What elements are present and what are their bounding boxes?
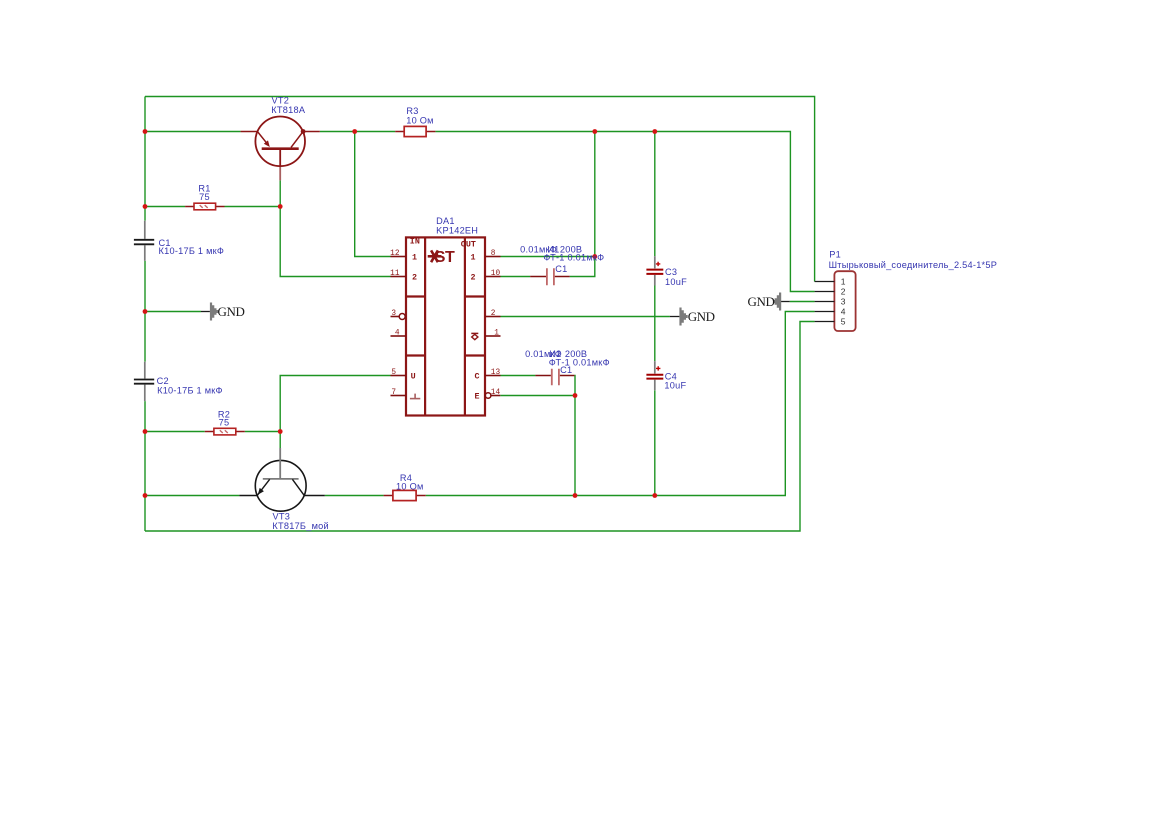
svg-text:C1: C1 [560, 365, 572, 375]
label R2 [218, 409, 230, 427]
wire R2 right [245, 431, 280, 433]
label P1 [829, 250, 998, 270]
svg-text:75: 75 [199, 192, 210, 202]
svg-text:К10-17Б 1 мкФ: К10-17Б 1 мкФ [157, 386, 223, 396]
wire R2 node down to VT3 base [279, 432, 281, 449]
resistor R2 [205, 428, 245, 435]
wire VT3 emitter row left [145, 495, 239, 497]
svg-text:ФТ-1 0.01мкФ: ФТ-1 0.01мкФ [543, 253, 604, 263]
svg-text:2: 2 [841, 287, 846, 297]
svg-text:ФТ-1 0.01мкФ: ФТ-1 0.01мкФ [549, 358, 610, 368]
svg-text:Штырьковый_соединитель_2.54-1*: Штырьковый_соединитель_2.54-1*5P [829, 260, 998, 270]
svg-text:10uF: 10uF [664, 381, 686, 391]
wire R1 right to VT2 base node [225, 206, 281, 208]
op-amp U1 regulator DA1 body [406, 237, 485, 415]
svg-text:К10-17Б 1 мкФ: К10-17Б 1 мкФ [159, 246, 225, 256]
svg-text:E: E [474, 391, 479, 401]
svg-text:2: 2 [412, 273, 417, 283]
node junction row B x595 [592, 129, 597, 134]
svg-text:IN: IN [410, 236, 420, 246]
svg-text:13: 13 [491, 369, 501, 377]
capacitor C1 series bottom [535, 369, 574, 386]
node junction pin8 x595 [592, 254, 597, 259]
svg-text:2: 2 [491, 310, 496, 318]
node junction row B x354 [352, 129, 357, 134]
label VT2 [271, 96, 306, 115]
svg-text:1: 1 [412, 253, 417, 263]
svg-text:10: 10 [491, 270, 501, 278]
node junction row B x655 [652, 129, 657, 134]
wire P1 GND flag to pin 3 [790, 301, 815, 303]
label C2 [157, 376, 223, 395]
wire black stub middle GND [670, 316, 680, 318]
wire DA1 pin 8 to node [501, 256, 595, 258]
DA1 pin 4 [391, 335, 407, 337]
svg-text:7: 7 [391, 389, 396, 397]
wire R1 left [145, 206, 185, 208]
DA1 pin 14 inverted [485, 393, 500, 399]
wire node to DA1 pin 11 [280, 207, 390, 277]
wire x655 vertical segment 3 [654, 390, 656, 495]
svg-text:GND: GND [748, 294, 775, 309]
wire bottom rail to connector pin 5 [145, 322, 815, 532]
svg-text:11: 11 [390, 270, 400, 278]
node junction R4 row x575 [573, 493, 578, 498]
svg-text:OUT: OUT [461, 239, 476, 249]
wire top rail from left rail to connector pin 1 [145, 97, 815, 282]
wire black stub P1 GND [781, 301, 790, 303]
svg-text:4: 4 [841, 307, 846, 317]
svg-text:10 Ом: 10 Ом [396, 481, 424, 491]
capacitor C1 series top [530, 268, 570, 285]
svg-text:КТ818А: КТ818А [271, 105, 306, 115]
transistor VT2 [241, 117, 320, 181]
svg-text:C: C [474, 372, 479, 382]
capacitor C1 [134, 221, 154, 261]
capacitor C2 [134, 362, 154, 401]
resistor R3 [395, 126, 435, 136]
svg-text:10uF: 10uF [665, 277, 687, 287]
wire row B left of VT2 [145, 131, 241, 133]
ground flag GND middle [679, 308, 714, 326]
wire DA1 pin 13 to series cap left [501, 375, 536, 377]
svg-text:12: 12 [390, 250, 400, 258]
wire DA1 pin 14 to node and down to R4 row [500, 396, 575, 496]
DA1 earth symbol pin 7 [410, 394, 420, 399]
wire VT2 base down to node [279, 180, 281, 206]
resistor R4 [384, 490, 426, 500]
wire series cap right down to pin14 node [573, 376, 576, 396]
resistor R1 [185, 203, 224, 210]
node junction R2 VT3 base [278, 429, 283, 434]
DA1 pin 1 [485, 335, 501, 337]
DA1 pin 2 [485, 316, 501, 318]
svg-text:1: 1 [470, 253, 475, 263]
label C4 [664, 372, 686, 391]
svg-text:14: 14 [491, 389, 501, 397]
svg-text:3: 3 [391, 310, 396, 318]
capacitor C4 [646, 361, 663, 390]
svg-text:GND: GND [688, 309, 715, 324]
capacitor C3 [646, 256, 663, 285]
node junction left rail VT3 row [143, 493, 148, 498]
DA1 pin 8 [485, 256, 501, 258]
ground flag GND at P1 [748, 293, 782, 311]
node junction left rail row B [143, 129, 148, 134]
DA1 pin 13 [485, 375, 501, 377]
DA1 pin 11 [391, 276, 407, 278]
wire left GND stub [145, 311, 201, 313]
transistor VT3 [239, 448, 324, 511]
DA1 diamond symbol pin 1 [471, 333, 478, 339]
label R1 [198, 183, 210, 202]
svg-text:8: 8 [491, 250, 496, 258]
svg-text:2: 2 [470, 273, 475, 283]
svg-text:P1: P1 [829, 250, 841, 260]
wire left rail vertical segment 3 [144, 401, 146, 531]
label R4 [396, 473, 424, 492]
svg-text:ST: ST [435, 249, 455, 266]
svg-text:3: 3 [841, 297, 846, 307]
ground flag GND left [210, 303, 245, 321]
svg-text:C1: C1 [555, 264, 567, 274]
wire row B from R3 to connector pin 2 [435, 132, 814, 292]
DA1 star logo [428, 250, 442, 262]
node junction pin14 x575 [573, 393, 578, 398]
wire R2 left [145, 431, 205, 433]
node junction left rail GND row [143, 309, 148, 314]
wire R4 right to connector pin 4 [426, 312, 815, 496]
wire x655 vertical segment 1 [654, 132, 656, 257]
node junction R4 row x655 [652, 493, 657, 498]
svg-text:4: 4 [395, 330, 400, 338]
wire left rail vertical segment 1 [144, 97, 146, 221]
svg-text:5: 5 [841, 317, 846, 327]
wire VT3 collector to R4 [325, 495, 384, 497]
svg-text:KP142EH: KP142EH [436, 226, 478, 236]
wire pin8 node down to series cap C1 right [570, 257, 595, 277]
DA1 pin 7 [391, 395, 407, 397]
DA1 pin 12 [391, 256, 407, 258]
label DA1 [436, 216, 478, 235]
wire black stub left GND [201, 311, 210, 313]
svg-text:GND: GND [218, 304, 245, 319]
svg-text:1: 1 [841, 277, 846, 287]
label C1 [159, 238, 225, 256]
wire DA1 pin 2 to GND flag [501, 316, 670, 318]
svg-text:5: 5 [391, 369, 396, 377]
DA1 pin 10 [485, 276, 501, 278]
wire from row B down to DA1 pin 12 [355, 132, 391, 257]
svg-text:1: 1 [494, 330, 499, 338]
DA1 pin 5 [391, 375, 407, 377]
wire left rail vertical segment 2 [144, 261, 146, 362]
label R3 [406, 106, 434, 125]
svg-text:КТ817Б_мой: КТ817Б_мой [272, 521, 329, 531]
svg-text:75: 75 [219, 418, 230, 428]
svg-text:C3: C3 [665, 267, 677, 277]
svg-text:10 Ом: 10 Ом [406, 116, 434, 126]
label capacitor C1 series bottom [525, 349, 610, 375]
wire row B down to pin8 node [594, 132, 596, 257]
wire DA1 pin 5 to R2 node [280, 376, 390, 432]
label VT3 [272, 512, 329, 531]
node junction VT2 base R1 [278, 204, 283, 209]
label capacitor C1 series top [520, 244, 604, 273]
wire DA1 pin 10 to series cap C1 left [501, 276, 531, 278]
connector P1 [815, 271, 856, 331]
DA1 pin 3 inverted [391, 314, 406, 320]
node junction left rail R2 row [143, 429, 148, 434]
svg-text:U: U [411, 372, 416, 382]
label C3 [665, 267, 687, 287]
wire x655 vertical segment 2 [654, 286, 656, 362]
node junction left rail R1 row [143, 204, 148, 209]
wire row B between VT2 and R3 [320, 131, 395, 133]
